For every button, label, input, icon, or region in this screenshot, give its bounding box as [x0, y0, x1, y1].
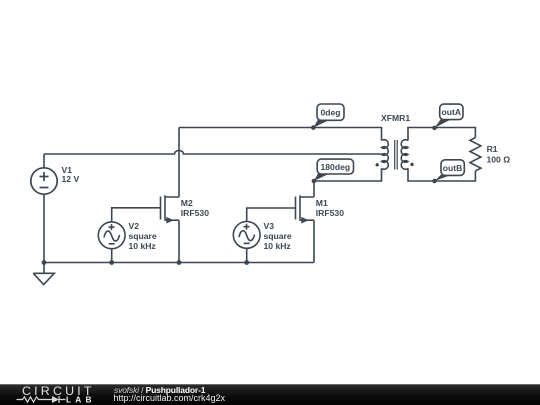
svg-text:R1: R1 — [487, 144, 498, 154]
svg-text:XFMR1: XFMR1 — [381, 113, 410, 123]
svg-text:V2: V2 — [129, 221, 140, 231]
svg-text:LAB: LAB — [66, 394, 96, 404]
svg-text:M2: M2 — [181, 198, 193, 208]
svg-text:IRF530: IRF530 — [181, 208, 209, 218]
svg-text:M1: M1 — [316, 198, 328, 208]
svg-text:180deg: 180deg — [320, 162, 350, 172]
svg-text:square: square — [129, 231, 157, 241]
svg-text:outB: outB — [443, 163, 463, 173]
svg-text:0deg: 0deg — [320, 108, 340, 118]
svg-text:square: square — [264, 231, 292, 241]
svg-text:outA: outA — [442, 107, 462, 117]
svg-text:10 kHz: 10 kHz — [264, 241, 291, 251]
svg-text:http://circuitlab.com/crk4g2x: http://circuitlab.com/crk4g2x — [114, 393, 226, 403]
svg-text:IRF530: IRF530 — [316, 208, 344, 218]
svg-text:V3: V3 — [264, 221, 275, 231]
svg-text:12 V: 12 V — [62, 174, 80, 184]
svg-text:10 kHz: 10 kHz — [129, 241, 156, 251]
svg-text:100 Ω: 100 Ω — [487, 155, 511, 165]
